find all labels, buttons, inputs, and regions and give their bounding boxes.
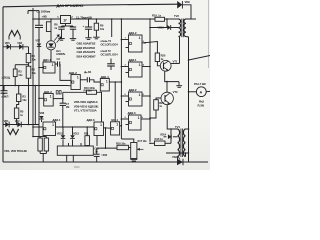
capacitor C4 electrolytic [85, 26, 92, 28]
svg-text:VD12: VD12 [73, 132, 80, 135]
svg-text:ОС1.ОП1.ОО4: ОС1.ОП1.ОО4 [101, 42, 119, 46]
wire bus x121 [120, 19, 122, 139]
svg-text:VD1, VD2 ТЮ3-2Е: VD1, VD2 ТЮ3-2Е [4, 149, 27, 153]
svg-text:1: 1 [52, 63, 54, 67]
gate DD1.2 [71, 75, 80, 90]
wire dd22 out [142, 66, 150, 68]
diode VD2 [17, 122, 21, 128]
transistor VT2 [161, 92, 173, 104]
wire diode row 1 [3, 46, 29, 48]
wire bus x39 lower [38, 47, 40, 137]
diode VD1 [5, 122, 9, 128]
gate DD1.4 [100, 79, 109, 92]
wire dd14 out [109, 81, 121, 83]
wire rail y85.5 [0, 85, 67, 87]
svg-text:R20: R20 [161, 53, 166, 57]
svg-text:VD14: VD14 [160, 133, 167, 136]
svg-text:ДД2.2: ДД2.2 [129, 88, 137, 92]
svg-text:R1: R1 [32, 54, 36, 58]
ground R9 [93, 36, 99, 38]
wire dd24 in [121, 118, 123, 120]
wire dd11 in [38, 67, 40, 69]
resistor R2 [26, 66, 31, 78]
svg-text:1: 1 [139, 93, 141, 97]
scan artifact right edge [208, 0, 210, 68]
svg-text:A: A [200, 90, 203, 94]
svg-text:VT2: VT2 [173, 90, 178, 94]
svg-text:VD11: VD11 [57, 132, 63, 135]
svg-text:1: 1 [57, 16, 59, 19]
wire dd22 in [121, 66, 123, 68]
wire bus x39 upper [38, 28, 40, 44]
svg-text:С2: С2 [57, 57, 61, 61]
svg-text:1: 1 [52, 123, 54, 127]
svg-text:1: 1 [50, 94, 52, 98]
diode VD9 [177, 1, 182, 8]
svg-text:ДД2.3: ДД2.3 [87, 118, 95, 122]
resistor R8 [44, 138, 48, 151]
svg-text:«ВКЛ: «ВКЛ [1, 95, 8, 99]
wire rail to TV2 [165, 18, 179, 20]
wire R23 down [150, 110, 156, 118]
svg-text:+9В: +9В [42, 15, 47, 19]
capacitor C2 coupling [57, 61, 59, 66]
zigzag winding top left [9, 31, 20, 37]
transformer TV2 left winding [179, 19, 181, 37]
potentiometer R17 [131, 143, 137, 159]
mark pair small [56, 91, 58, 94]
wire dd13 out [53, 98, 63, 100]
diode VD5 [7, 44, 11, 49]
transformer TV1 core [180, 129, 182, 158]
node x145 joints [144, 42, 146, 44]
ground pot [133, 158, 135, 161]
wire link y64.7 [15, 64, 28, 66]
LED HL1 [46, 41, 55, 50]
wire dd26 bottom pin [96, 136, 98, 147]
svg-text:10к: 10к [22, 98, 27, 102]
wire VD9 to TV2 [182, 5, 191, 19]
wire dd14 in [90, 80, 101, 82]
capacitor C7 [62, 99, 64, 104]
wire dd25 in [32, 126, 34, 128]
wire R2 down [28, 78, 30, 124]
wire R10 out [97, 92, 102, 122]
svg-text:10к: 10к [32, 58, 37, 62]
capacitor C8 blob [111, 19, 113, 37]
diode VD13 [164, 136, 167, 138]
wire +9V rail A [33, 18, 61, 20]
wire dd12 out [80, 79, 87, 81]
svg-text:10к: 10к [18, 73, 23, 77]
svg-text:2: 2 [71, 16, 73, 19]
wire zigzag stubs [8, 36, 10, 40]
svg-text:ТV1: ТV1 [175, 125, 180, 129]
gate DD2.7 small [111, 122, 120, 135]
wire bottom common bus [3, 161, 208, 163]
svg-text:ВБ4 К5СИВ97: ВБ4 К5СИВ97 [77, 55, 96, 59]
svg-text:VD3: VD3 [17, 41, 22, 45]
node plus9 corner [28, 10, 33, 12]
svg-text:1: 1 [139, 63, 141, 67]
svg-text:R19, 1к: R19, 1к [152, 13, 162, 17]
wire R6 stubs [50, 19, 52, 22]
svg-text:С1 1000мк: С1 1000мк [37, 9, 51, 13]
svg-text:к Ба2 Т2: к Ба2 Т2 [101, 49, 112, 53]
wire r pair top [33, 136, 46, 138]
wire y153 [166, 152, 189, 154]
resistor R15 [155, 141, 166, 146]
ground pin DA1 [65, 24, 67, 27]
svg-text:ДД1.2: ДД1.2 [129, 31, 137, 35]
wire tv1 right top [186, 128, 189, 130]
capacitor C6 coupling [86, 77, 88, 82]
resistor R19 [155, 17, 165, 21]
transformer TV2 right winding [184, 19, 186, 37]
gate DD1.3 [44, 94, 54, 107]
svg-text:R6: R6 [54, 22, 58, 26]
gate DD2.2 [129, 62, 143, 77]
wire x115 vert [114, 82, 116, 122]
wire r pair bottom [39, 151, 41, 154]
svg-text:R5: R5 [20, 109, 24, 113]
svg-text:R17 10к: R17 10к [138, 139, 148, 143]
diode VD3 [19, 44, 23, 49]
wire R5 down [16, 119, 18, 125]
svg-text:1: 1 [100, 123, 102, 127]
gate DD1.1 [43, 62, 55, 73]
svg-text:+: + [83, 24, 85, 28]
wire HL1 down [50, 50, 52, 62]
wire left frame bus [2, 7, 4, 162]
wire tv1 left bottom [177, 157, 179, 163]
capacitor C12 [96, 148, 98, 154]
thyristor VS2 [177, 159, 183, 165]
svg-text:к БаЬ Т1: к БаЬ Т1 [101, 39, 112, 43]
gate DD2.4 [129, 115, 142, 130]
wire bus x150 [149, 19, 151, 142]
ground mid right [178, 82, 180, 86]
wire bus x33 [32, 8, 34, 137]
svg-text:ОС1.ВП1.ОО4: ОС1.ВП1.ОО4 [101, 52, 119, 56]
resistor R7 [38, 138, 42, 151]
svg-text:ДД2.1: ДД2.1 [52, 118, 60, 122]
transformer TV2 core [181, 19, 183, 38]
resistor R21 [85, 136, 90, 146]
svg-text:1: 1 [106, 79, 108, 83]
wire tv2 right bottom to bus [186, 37, 189, 163]
svg-text:R.ХВ: R.ХВ [198, 103, 205, 107]
wire dd27 out [120, 125, 122, 127]
wire VT1 emitter [165, 71, 179, 81]
wide box spare pins [68, 143, 70, 146]
stray mark below frame [74, 166, 80, 168]
wire dd23 out [142, 95, 150, 97]
transistor VT1 [160, 60, 171, 71]
resistor R6 [46, 22, 51, 32]
resistor R10 [87, 90, 97, 94]
wire dd23 in [121, 95, 123, 97]
svg-text:R2: R2 [32, 67, 36, 71]
svg-text:VT1, VT2 КТ315А: VT1, VT2 КТ315А [74, 109, 98, 113]
svg-text:11, 70мк×6В: 11, 70мк×6В [76, 15, 92, 19]
wire dd21 out [142, 42, 157, 54]
wire top supply bus [3, 4, 179, 7]
wire VT2 collector [166, 82, 168, 93]
capacitor C2 input [58, 26, 64, 28]
svg-text:АЛ307Б: АЛ307Б [56, 52, 66, 56]
wire box down pins [66, 155, 68, 162]
wire R15 right [165, 142, 171, 144]
svg-text:R9: R9 [100, 23, 104, 27]
svg-text:R21: R21 [84, 133, 89, 136]
svg-text:VD8: VD8 [40, 112, 45, 115]
wire R15 left [150, 142, 155, 144]
svg-text:1М: 1М [66, 105, 69, 109]
wire R4 R5 link [17, 102, 19, 109]
wire dd12 in [60, 64, 71, 80]
svg-text:ДА1 КР142ЕН5: ДА1 КР142ЕН5 [57, 3, 85, 8]
transformer TV1 right winding [183, 129, 185, 157]
capacitor C5 edge [1, 90, 8, 92]
svg-text:дЬ.Я4: дЬ.Я4 [84, 70, 92, 74]
svg-text:VD9: VD9 [185, 0, 191, 4]
svg-text:R15 1к: R15 1к [155, 137, 164, 141]
wire VT2 emitter [167, 105, 171, 129]
svg-text:10к: 10к [100, 27, 105, 31]
wire x35 branch [34, 86, 36, 125]
svg-text:ДД2.3: ДД2.3 [128, 111, 136, 115]
resistor R5 [14, 108, 18, 119]
gate DD2.3 [129, 92, 143, 106]
svg-text:1: 1 [77, 75, 79, 79]
svg-text:1: 1 [116, 123, 118, 127]
wire dd21 in [121, 39, 123, 41]
resistor R4 [17, 94, 21, 102]
diode VD10 [167, 25, 170, 30]
wire R23 base [156, 98, 161, 100]
wire R20 to base [157, 62, 160, 66]
svg-text:ДД1.1: ДД1.1 [43, 58, 51, 62]
resistor R20 [155, 53, 159, 62]
terminal block wide box [57, 146, 93, 155]
svg-text:VT1: VT1 [173, 59, 178, 63]
ground C2 [58, 38, 64, 40]
wire dd25 out [56, 126, 95, 128]
resistor R16 [117, 145, 129, 149]
meter PA1 [196, 87, 206, 97]
svg-text:1: 1 [138, 116, 140, 120]
wire meter line left [189, 91, 197, 93]
wire tv1 feed [171, 129, 178, 143]
svg-text:РА1.7 ВК: РА1.7 ВК [194, 82, 206, 86]
svg-text:ДД1.2: ДД1.2 [69, 71, 77, 75]
svg-text:VD7: VD7 [35, 40, 40, 43]
resistor R3 [13, 69, 17, 77]
svg-text:≈400: ≈400 [101, 153, 107, 157]
wire tv2 right top [186, 18, 196, 20]
wire y148 [97, 147, 117, 149]
wire +9V rail B [71, 18, 156, 20]
svg-text:СВ1 К5А9АТ9: СВ1 К5А9АТ9 [77, 50, 96, 54]
wire tv2 left bottom [179, 37, 180, 64]
resistor R9 [94, 23, 98, 30]
capacitor C1 [35, 24, 43, 26]
resistor R1 [26, 54, 31, 63]
svg-text:1: 1 [139, 36, 141, 40]
diode VD7 in bus [37, 43, 41, 46]
svg-text:R10 100к: R10 100к [84, 86, 95, 90]
zigzag winding bottom left [7, 129, 18, 135]
svg-text:R3: R3 [22, 94, 26, 98]
svg-text:ВД2 К5А9ГЕ8: ВД2 К5А9ГЕ8 [77, 46, 96, 50]
capacitor C3 [70, 26, 76, 28]
diode VD11 [62, 127, 64, 135]
wire diode row 2 [3, 124, 39, 126]
wire x105 down [105, 128, 107, 148]
gate DD2.6 [94, 122, 104, 136]
wire x167 stub [166, 18, 168, 20]
transformer TV1 left winding [178, 129, 180, 157]
wire dd13 in [38, 98, 40, 100]
ground C3 [70, 38, 76, 40]
wire R16 right [129, 147, 131, 149]
svg-text:R3: R3 [18, 69, 22, 73]
svg-text:1м: 1м [95, 150, 98, 154]
wire tv1 right bottom [185, 153, 187, 157]
regulator DA1 [61, 16, 71, 24]
svg-text:ДД1.3: ДД1.3 [44, 90, 52, 94]
wire dd26 out [104, 127, 111, 129]
svg-text:10к: 10к [32, 71, 37, 75]
svg-text:17: 17 [63, 19, 67, 23]
gate DD2.1 [129, 35, 143, 52]
wire collector VT1 [171, 63, 180, 65]
ground C4 [85, 37, 91, 39]
resistor R23 [154, 100, 159, 110]
svg-text:ДД1.4: ДД1.4 [101, 75, 109, 79]
svg-text:R24: R24 [159, 101, 164, 105]
gate DD2.5 [43, 122, 56, 136]
wire right exit top [189, 56, 211, 61]
svg-text:ДД2.1: ДД2.1 [129, 58, 137, 62]
wire meter line right [206, 90, 210, 92]
wire dd24 out [141, 118, 150, 120]
diode VD12 [72, 127, 74, 135]
svg-text:ТV2: ТV2 [174, 14, 179, 18]
svg-text:R16 10к: R16 10к [116, 141, 126, 145]
wire pot top [121, 139, 133, 143]
svg-text:«ОБЩ: «ОБЩ [2, 75, 11, 79]
svg-text:VD5: VD5 [5, 41, 10, 45]
svg-text:VS2: VS2 [172, 155, 178, 159]
diode VD8 [39, 116, 43, 119]
